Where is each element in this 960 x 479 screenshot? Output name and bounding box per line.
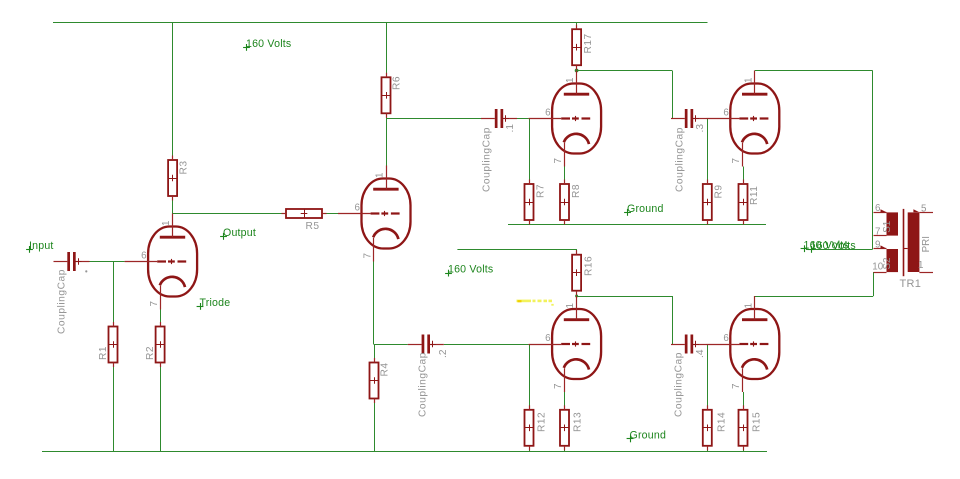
- svg-text:160 Volts: 160 Volts: [811, 240, 856, 252]
- svg-text:R14: R14: [717, 412, 728, 432]
- svg-text:9: 9: [875, 239, 880, 250]
- svg-text:6: 6: [723, 108, 729, 119]
- svg-text:R4: R4: [380, 362, 391, 376]
- svg-text:7: 7: [731, 158, 742, 163]
- svg-text:1: 1: [565, 78, 576, 83]
- svg-text:.3: .3: [695, 124, 706, 133]
- svg-text:S2: S2: [882, 258, 893, 270]
- svg-text:R9: R9: [714, 184, 725, 198]
- svg-text:CouplingCap: CouplingCap: [674, 352, 685, 417]
- svg-text:160 Volts: 160 Volts: [246, 38, 291, 50]
- svg-text:R6: R6: [392, 76, 403, 90]
- svg-text:R1: R1: [98, 346, 109, 360]
- svg-text:R13: R13: [573, 412, 584, 432]
- svg-text:Input: Input: [29, 240, 54, 252]
- svg-text:6: 6: [545, 333, 551, 344]
- svg-text:6: 6: [355, 203, 361, 214]
- svg-text:5: 5: [921, 204, 927, 215]
- svg-text:R5: R5: [306, 221, 320, 232]
- svg-text:.4: .4: [695, 349, 706, 358]
- svg-text:R8: R8: [571, 184, 582, 198]
- svg-text:7: 7: [149, 301, 160, 306]
- svg-text:.1: .1: [505, 124, 516, 133]
- svg-text:Output: Output: [223, 227, 256, 239]
- svg-text:1: 1: [743, 78, 754, 83]
- svg-text:TR1: TR1: [900, 278, 922, 290]
- svg-text:R12: R12: [537, 412, 548, 432]
- svg-text:R3: R3: [179, 160, 190, 174]
- svg-text:CouplingCap: CouplingCap: [57, 269, 68, 334]
- svg-text:7: 7: [731, 384, 742, 389]
- svg-text:S1: S1: [882, 221, 893, 233]
- svg-text:160 Volts: 160 Volts: [448, 264, 493, 276]
- svg-text:Ground: Ground: [630, 430, 667, 442]
- svg-text:7: 7: [553, 384, 564, 389]
- svg-text:R15: R15: [752, 412, 763, 432]
- svg-text:6: 6: [141, 251, 147, 262]
- svg-text:1: 1: [565, 303, 576, 308]
- svg-text:6: 6: [875, 203, 881, 214]
- svg-text:Triode: Triode: [200, 297, 231, 309]
- svg-text:Ground: Ground: [627, 203, 664, 215]
- svg-text:CouplingCap: CouplingCap: [675, 127, 686, 192]
- svg-text:.2: .2: [438, 349, 449, 358]
- svg-text:CouplingCap: CouplingCap: [418, 352, 429, 417]
- svg-text:PRI: PRI: [921, 236, 932, 252]
- svg-text:R7: R7: [536, 184, 547, 198]
- svg-text:R17: R17: [583, 33, 594, 53]
- svg-text:R2: R2: [145, 346, 156, 360]
- svg-text:1: 1: [918, 260, 923, 271]
- svg-text:6: 6: [723, 333, 729, 344]
- svg-text:7: 7: [553, 158, 564, 163]
- svg-text:R16: R16: [584, 256, 595, 276]
- svg-text:1: 1: [161, 221, 172, 226]
- svg-text:1: 1: [743, 303, 754, 308]
- svg-text:7: 7: [875, 227, 880, 238]
- svg-text:1: 1: [375, 173, 386, 178]
- svg-text:R11: R11: [749, 186, 760, 205]
- svg-text:6: 6: [545, 108, 551, 119]
- svg-text:CouplingCap: CouplingCap: [482, 127, 493, 192]
- svg-text:7: 7: [362, 253, 373, 258]
